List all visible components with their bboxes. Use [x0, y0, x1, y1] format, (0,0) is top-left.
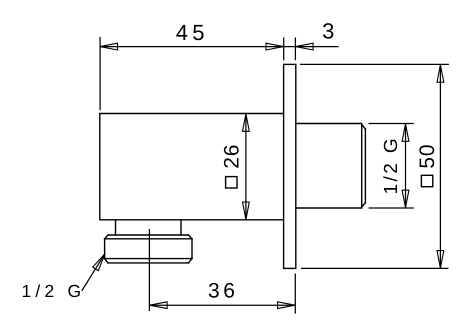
extension line at body left — [99, 37, 101, 110]
svg-text:1/2 G: 1/2 G — [22, 281, 86, 301]
hose nut — [105, 235, 192, 263]
extension line at plate right face — [294, 38, 296, 61]
extension lines 50 — [300, 64, 449, 268]
dimension line 50 — [439, 64, 441, 268]
dim text 26 (rotated) — [221, 144, 244, 169]
dim text 36 — [208, 280, 238, 303]
arrowhead 50 bottom — [437, 251, 444, 269]
body (square elbow housing) — [100, 114, 284, 220]
threaded boss (1/2 G male, behind wall) — [296, 124, 365, 209]
extension line 36 right — [294, 274, 296, 314]
svg-text:45: 45 — [176, 20, 209, 45]
dimension line 45/3 — [100, 46, 339, 48]
leader line 1/2G — [82, 254, 105, 291]
outlet neck — [116, 220, 182, 235]
arrowhead 26 top — [243, 114, 250, 132]
svg-text:3: 3 — [322, 19, 334, 44]
dimension line 36 — [149, 304, 295, 306]
arrowhead 36 right — [278, 302, 296, 309]
square symbol for 50 — [421, 175, 432, 186]
svg-text:36: 36 — [208, 280, 238, 303]
thread label 1/2 G rotated — [381, 136, 402, 194]
arrowhead leader 1/2G — [93, 253, 106, 270]
arrowhead 36 left — [150, 302, 168, 309]
extension line at plate left face — [283, 38, 285, 61]
arrowhead 26 bottom — [243, 202, 250, 220]
wall plate — [284, 64, 296, 268]
dim text 45 — [176, 20, 209, 45]
square symbol for 26 — [226, 177, 237, 188]
arrowhead 3 right outside — [296, 43, 314, 50]
arrowhead boss top — [402, 124, 409, 142]
extension lines boss — [369, 124, 414, 209]
arrowhead 45 left — [100, 43, 118, 50]
svg-text:26: 26 — [221, 144, 244, 169]
dimension line 26 — [245, 114, 247, 220]
arrowhead boss bottom — [402, 190, 409, 208]
dim text 50 (rotated) — [416, 144, 439, 169]
arrowhead 45 right — [266, 43, 284, 50]
thread label 1/2 G bottom left — [22, 281, 86, 301]
arrowhead 50 top — [437, 65, 444, 83]
svg-text:50: 50 — [416, 144, 439, 169]
svg-text:1/2 G: 1/2 G — [381, 136, 402, 194]
dimension line boss 1/2G — [405, 124, 407, 209]
dim text 3 — [322, 19, 334, 44]
centerline of nut — [148, 230, 150, 311]
